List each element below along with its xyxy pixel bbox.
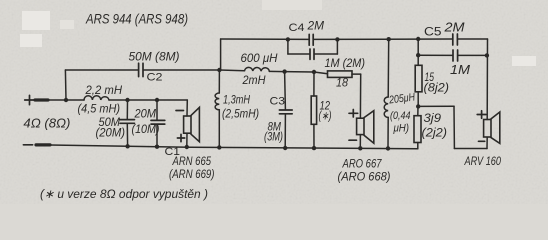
node E junction bbox=[282, 69, 286, 73]
polarity minus ARN bbox=[176, 110, 184, 112]
speaker ARO 667 cone bbox=[364, 111, 374, 144]
wire: 50M cap to bottom rail bbox=[126, 124, 128, 146]
wire: C1 to bottom rail bbox=[156, 125, 158, 147]
svg-text:(2j2): (2j2) bbox=[422, 128, 448, 140]
wire: C5 lower branch right segment bbox=[458, 54, 487, 56]
wire: R-3j9 bottom to rail end bbox=[417, 143, 419, 149]
node G junction bbox=[416, 104, 420, 108]
node L4-bottom junction bbox=[217, 145, 221, 149]
svg-text:ARO 667: ARO 667 bbox=[342, 157, 383, 171]
wire: R-15 to node G bbox=[417, 92, 419, 107]
wire: L1 to node B bbox=[109, 99, 128, 101]
wire: node D down to L4 coil bbox=[218, 70, 220, 93]
capacitor C2 plates bbox=[139, 63, 143, 76]
speaker ARN 665 body bbox=[184, 116, 191, 133]
wire: C3 to bottom rail bbox=[284, 114, 286, 148]
svg-text:μH): μH) bbox=[393, 123, 410, 135]
capacitor C5b plates bbox=[453, 50, 458, 61]
wire: C2 to node D bbox=[144, 69, 220, 71]
wire: bottom rail bbox=[50, 145, 418, 149]
svg-text:20M: 20M bbox=[134, 107, 156, 121]
wire: tweeter minus stub up bbox=[486, 137, 488, 148]
svg-text:(3M): (3M) bbox=[264, 132, 283, 144]
wire: node F to R-18 bbox=[314, 72, 328, 74]
node C5b-left junction bbox=[416, 53, 420, 57]
node C5-left junction bbox=[416, 37, 420, 41]
svg-text:2,2 mH: 2,2 mH bbox=[85, 83, 123, 97]
svg-text:(20M): (20M) bbox=[96, 126, 126, 140]
polarity minus input bbox=[23, 144, 32, 146]
node B junction bbox=[125, 98, 129, 102]
svg-text:1,3mH: 1,3mH bbox=[223, 95, 251, 107]
wire: top rail C5 to right corner bbox=[458, 38, 488, 40]
node C1-bottom junction bbox=[155, 145, 159, 149]
polarity plus ARV bbox=[477, 111, 486, 119]
wire: node E to node F bbox=[285, 71, 314, 73]
svg-text:1M (2M): 1M (2M) bbox=[325, 56, 366, 70]
wire: node C to ARN corner bbox=[157, 99, 187, 101]
wire: R-18 to ARO corner bbox=[352, 73, 361, 75]
wire: node B down to 50M cap bbox=[126, 100, 128, 119]
wire: 600uH to node E bbox=[269, 70, 284, 72]
wire: C5 left stub down bbox=[417, 39, 419, 65]
wire: node B to node C bbox=[128, 99, 158, 101]
svg-text:50M (8M): 50M (8M) bbox=[129, 50, 180, 64]
speaker ARV 160 body bbox=[484, 120, 491, 138]
svg-text:4Ω (8Ω): 4Ω (8Ω) bbox=[23, 117, 70, 131]
resistor R-12 body bbox=[311, 96, 316, 124]
svg-text:(8j2): (8j2) bbox=[424, 83, 450, 95]
wire: L4 to bottom rail bbox=[218, 110, 220, 148]
svg-text:(∗): (∗) bbox=[319, 111, 332, 123]
svg-text:ARN 665: ARN 665 bbox=[172, 154, 212, 168]
wire: U bottom to tweeter bbox=[454, 148, 487, 150]
speaker ARV 160 cone bbox=[491, 112, 500, 143]
wire: ARN bottom to rail bbox=[186, 133, 188, 147]
wire: node G to R-3j9 bbox=[417, 106, 419, 115]
wire: U corner down bbox=[453, 106, 455, 148]
wire: top rail C4 to C5 bbox=[314, 38, 452, 40]
wire: node C down to C1 bbox=[156, 100, 158, 120]
wire: R-12 to bottom rail bbox=[313, 124, 315, 148]
svg-text:ARS 944 (ARS 948): ARS 944 (ARS 948) bbox=[85, 11, 188, 27]
capacitor C4 plates bbox=[309, 34, 313, 45]
svg-text:(∗ u verze 8Ω odpor vypuštěn ): (∗ u verze 8Ω odpor vypuštěn ) bbox=[40, 187, 208, 201]
svg-text:C4: C4 bbox=[289, 22, 305, 34]
speaker ARN 665 cone bbox=[191, 107, 199, 141]
node ARN-bottom junction bbox=[185, 145, 189, 149]
svg-text:3j9: 3j9 bbox=[424, 113, 442, 125]
wire: ARO corner down to speaker bbox=[359, 74, 361, 118]
polarity minus ARO bbox=[349, 139, 357, 141]
svg-text:(ARO 668): (ARO 668) bbox=[338, 170, 391, 184]
svg-text:(10M): (10M) bbox=[132, 122, 160, 136]
capacitor 50M plates bbox=[120, 120, 135, 124]
wire: corner down to ARN speaker top bbox=[186, 100, 188, 116]
node C junction bbox=[155, 98, 159, 102]
wire: C5 lower branch left segment bbox=[418, 54, 452, 56]
capacitor C1 20M plates bbox=[151, 120, 165, 124]
wire: node D up to top rail bbox=[220, 39, 222, 70]
resistor R-15 body bbox=[415, 65, 422, 92]
node L3-bottom junction bbox=[386, 146, 390, 150]
polarity minus ARV bbox=[479, 140, 485, 142]
polarity plus ARN bbox=[177, 134, 184, 141]
wire: top rail left segment to C4 bbox=[221, 38, 309, 40]
inductor L1 2,2mH humps bbox=[84, 96, 109, 100]
svg-text:2M: 2M bbox=[307, 19, 324, 33]
wire: C4 lower branch left stub bbox=[287, 39, 289, 54]
capacitor C4b plates bbox=[310, 49, 314, 59]
svg-text:18: 18 bbox=[336, 78, 349, 90]
wire: + input to node A bbox=[48, 99, 66, 101]
svg-text:(2,5mH): (2,5mH) bbox=[222, 109, 259, 121]
wire: C4 lower branch right stub bbox=[336, 39, 338, 54]
wire: node A to inductor L1 bbox=[66, 99, 84, 101]
svg-text:2M: 2M bbox=[443, 20, 464, 35]
polarity plus ARO bbox=[349, 110, 358, 118]
node R12-bottom junction bbox=[312, 146, 316, 150]
svg-text:ARV 160: ARV 160 bbox=[464, 154, 502, 168]
wire: + input lead (thick) bbox=[35, 98, 48, 101]
node A junction bbox=[64, 98, 68, 102]
svg-text:(4,5 mH): (4,5 mH) bbox=[78, 102, 121, 116]
node L3-top junction bbox=[387, 37, 391, 41]
node F junction bbox=[312, 70, 316, 74]
node ARO-bottom junction bbox=[358, 146, 362, 150]
capacitor C3 plates bbox=[279, 110, 292, 114]
wire: L3 bottom to rail bbox=[387, 117, 389, 148]
wire: C4 lower branch left segment bbox=[288, 53, 310, 55]
wire: C2 branch left segment bbox=[65, 69, 138, 71]
svg-text:600 μH: 600 μH bbox=[241, 51, 278, 65]
svg-text:C5: C5 bbox=[424, 27, 442, 39]
svg-text:(ARN 669): (ARN 669) bbox=[169, 167, 215, 181]
wire: C4 lower branch right segment bbox=[315, 53, 338, 55]
wire: bottom rail minus lead (thick) bbox=[36, 143, 50, 146]
capacitor C5 plates bbox=[453, 34, 458, 45]
wire: node G right to U corner bbox=[418, 105, 454, 107]
wire: tweeter feed down right edge bbox=[486, 39, 488, 120]
polarity plus input bbox=[25, 95, 35, 104]
svg-text:(0,44: (0,44 bbox=[390, 110, 411, 122]
inductor L4 1,3mH arcs bbox=[215, 93, 219, 110]
wire: L3 top drop bbox=[387, 39, 390, 97]
node C5b-right junction bbox=[485, 53, 489, 57]
svg-text:2mH: 2mH bbox=[242, 73, 266, 87]
inductor L2 600uH humps bbox=[245, 67, 270, 71]
svg-text:1M: 1M bbox=[450, 62, 470, 77]
wire: node E down to C3 bbox=[284, 72, 287, 110]
node D junction bbox=[217, 68, 221, 72]
resistor R-3j9 body bbox=[414, 116, 421, 143]
wire: node F down to R-12 bbox=[313, 72, 315, 96]
wire: mid rail node D to 600uH bbox=[219, 69, 244, 72]
svg-text:C3: C3 bbox=[270, 96, 286, 108]
node C4-left junction bbox=[286, 37, 290, 41]
inductor L3 205uH arcs bbox=[384, 97, 388, 117]
svg-text:C2: C2 bbox=[147, 72, 163, 84]
wire: node A up to C2 branch bbox=[64, 70, 67, 100]
node 50M-bottom junction bbox=[125, 144, 129, 148]
wire: ARO bottom to rail bbox=[359, 135, 361, 149]
speaker ARO 667 body bbox=[357, 118, 364, 134]
resistor R-18 body bbox=[328, 71, 353, 78]
node C4-right junction bbox=[335, 37, 339, 41]
node C3-bottom junction bbox=[283, 146, 287, 150]
